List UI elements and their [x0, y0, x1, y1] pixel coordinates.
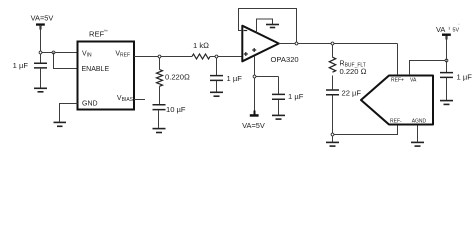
- svg-text:VA=5V: VA=5V: [31, 14, 54, 23]
- svg-text:AGND: AGND: [412, 118, 427, 124]
- svg-text:0.220Ω: 0.220Ω: [165, 73, 190, 82]
- ground G7: [326, 136, 339, 146]
- wire main top-left rail: [40, 52, 78, 54]
- svg-text:1 µF: 1 µF: [227, 74, 243, 83]
- node junction B: [52, 51, 55, 54]
- svg-text:GND: GND: [82, 101, 98, 108]
- wire VREF rail: [134, 56, 192, 58]
- capacitor C1 1uF: [13, 54, 47, 88]
- ground G8: [440, 101, 453, 105]
- node junction E: [295, 42, 298, 45]
- svg-text:ENABLE: ENABLE: [82, 66, 110, 73]
- wire top supply stub: [257, 19, 273, 33]
- svg-text:VA: VA: [410, 77, 417, 83]
- op-amp U2 OPA320: [242, 26, 298, 64]
- ground G4: [210, 92, 223, 96]
- power VA=5V bottom: [242, 111, 265, 130]
- node junction H: [331, 133, 334, 136]
- capacitor C4 1uF: [272, 77, 304, 115]
- ground G9: [411, 142, 424, 146]
- wire GND pin: [60, 104, 78, 122]
- power VA=5V top-left: [31, 14, 54, 30]
- resistor R1 1 kOhm: [192, 41, 210, 59]
- wire bottom supply: [254, 56, 256, 114]
- svg-text:VA: VA: [436, 25, 445, 34]
- svg-text:1 µF: 1 µF: [13, 61, 29, 70]
- svg-text:VBIAS: VBIAS: [117, 95, 134, 103]
- svg-text:™: ™: [104, 29, 108, 34]
- wire R1 to opamp: [210, 56, 242, 58]
- resistor R3 RBUF_FLT 0.220 ohm: [329, 45, 366, 76]
- node junction C: [158, 55, 161, 58]
- svg-text:5V: 5V: [453, 27, 460, 33]
- capacitor C6 1uF: [440, 61, 472, 100]
- ground G3: [153, 129, 166, 133]
- svg-text:0.220 Ω: 0.220 Ω: [340, 67, 367, 76]
- svg-text:10 µF: 10 µF: [166, 105, 186, 114]
- ground G2: [54, 122, 67, 126]
- ground G1: [34, 88, 47, 92]
- voltage reference U1 REF box: [78, 29, 135, 110]
- capacitor C5 22uF: [326, 76, 361, 135]
- ground G6: [272, 115, 285, 119]
- ADC U3: [361, 76, 433, 125]
- node junction G: [253, 75, 256, 78]
- wire VA to node: [40, 25, 42, 53]
- capacitor C2 10uF: [153, 86, 186, 128]
- svg-text:OPA320: OPA320: [271, 55, 299, 64]
- wire feedback loop: [239, 9, 297, 44]
- svg-text:1 µF: 1 µF: [288, 92, 304, 101]
- power VA=5V top-right: [436, 24, 460, 61]
- wire bottom rail: [333, 126, 398, 135]
- node junction A: [39, 51, 42, 54]
- wire VA pin: [410, 61, 447, 76]
- node junction I: [445, 59, 448, 62]
- svg-text:REF-: REF-: [390, 118, 402, 124]
- wire VBIAS stub: [134, 99, 145, 101]
- resistor R2 0.220 ohm: [157, 58, 191, 86]
- wire REF- drop: [397, 126, 399, 135]
- wire ENABLE branch: [54, 53, 78, 69]
- ground G5 opamp V-: [266, 25, 279, 28]
- svg-text:22 µF: 22 µF: [342, 89, 362, 98]
- svg-text:VREF: VREF: [115, 51, 130, 59]
- svg-text:1 kΩ: 1 kΩ: [193, 41, 209, 50]
- wire REF+ riser: [397, 44, 399, 76]
- node junction F: [331, 42, 334, 45]
- wire output rail: [279, 43, 398, 45]
- svg-text:VIN: VIN: [82, 51, 92, 59]
- capacitor C3 1uF: [210, 58, 242, 92]
- svg-text:VA=5V: VA=5V: [242, 121, 265, 130]
- svg-text:REF: REF: [89, 30, 105, 39]
- svg-text:REF+: REF+: [391, 77, 404, 83]
- wire AGND drop: [417, 126, 419, 142]
- node junction D: [215, 55, 218, 58]
- svg-text:1 µF: 1 µF: [457, 73, 473, 82]
